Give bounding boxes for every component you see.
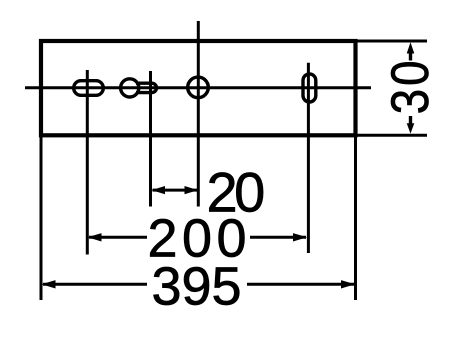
dimension 200: line right segment: [250, 236, 306, 239]
horizontal centerline: [25, 86, 371, 89]
centerline / extension line through H1: [86, 70, 89, 255]
extension line through H2 slot: [149, 71, 152, 207]
dimension 395: left arrow: [42, 280, 56, 288]
dimension 395: line right segment: [247, 283, 354, 286]
dimension 30: upper arrow: [407, 42, 415, 53]
right edge extension line (395 dim): [354, 137, 357, 300]
centerline / extension line through H3: [197, 21, 200, 207]
top-right extension line (30 dim): [357, 40, 427, 43]
mounting plate outline: [41, 41, 356, 135]
dimension 200: left arrow: [88, 233, 102, 241]
svg-text:30: 30: [381, 58, 440, 115]
dimension 30: lower arrow: [407, 123, 415, 133]
dimension 20: double arrow: [153, 189, 198, 192]
left edge extension line (395 dim): [40, 137, 43, 300]
slot hole H1 (horizontal obround): [74, 81, 104, 96]
keyhole hole H2 circle: [121, 79, 139, 97]
centerline / extension line through H4: [307, 63, 310, 253]
slot hole H4 (vertical obround): [303, 74, 316, 102]
svg-text:395: 395: [151, 257, 241, 317]
dimension 200: line left segment: [89, 236, 147, 239]
dimension 395: right arrow: [341, 280, 355, 288]
keyhole hole H2 slot: [136, 83, 157, 92]
dimension 395: line left segment: [43, 283, 147, 286]
round hole H3: [188, 77, 209, 98]
dimension 200: right arrow: [293, 233, 307, 241]
bottom-right extension line (30 dim): [357, 134, 427, 137]
